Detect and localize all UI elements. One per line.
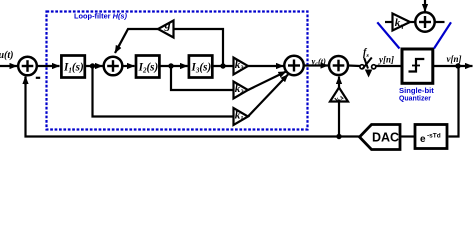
amplifier k2 xyxy=(234,82,249,99)
wire g to S2 top xyxy=(117,29,158,49)
amplifier k4 (points up) xyxy=(330,88,348,102)
wire k3 to S3 xyxy=(248,65,284,67)
svg-text:DAC: DAC xyxy=(372,131,399,145)
node after I2 xyxy=(168,63,173,68)
svg-text:u(t): u(t) xyxy=(0,50,14,61)
wire k2 to S3 diagonal xyxy=(248,72,286,91)
integrator I1 xyxy=(61,56,84,78)
svg-text:fs: fs xyxy=(363,48,369,60)
DAC block xyxy=(360,125,401,150)
svg-text:I1(s): I1(s) xyxy=(63,62,84,75)
node after I1 xyxy=(90,63,95,68)
wire S2 to I2 xyxy=(123,65,135,67)
wire k4 stem to feedback line xyxy=(338,102,340,137)
summing node S2 xyxy=(104,57,123,76)
wire I2 to I3 xyxy=(161,65,188,67)
svg-text:Quantizer: Quantizer xyxy=(399,94,431,103)
wire k4 up into S4 xyxy=(338,77,340,88)
quantizer sign symbol xyxy=(409,59,425,72)
svg-text:v[n]: v[n] xyxy=(447,54,462,64)
delay block e^-sTd xyxy=(415,125,447,149)
wire DAC to feedback line xyxy=(339,135,360,137)
wire quantizer output v[n] xyxy=(433,65,473,67)
wire k1 to S3 diagonal xyxy=(248,75,288,117)
svg-text:k1: k1 xyxy=(235,109,244,122)
callout line right (quantizer zoom) xyxy=(434,22,451,48)
svg-text:y[n]: y[n] xyxy=(378,55,394,65)
quantizer box xyxy=(402,49,433,83)
wire input into summer S1 xyxy=(0,65,17,67)
svg-text:-sTd: -sTd xyxy=(427,133,441,140)
integrator I2 xyxy=(136,56,159,78)
svg-text:Loop-filter H(s): Loop-filter H(s) xyxy=(74,12,128,21)
integrator I3 xyxy=(189,56,212,78)
svg-text:I2(s): I2(s) xyxy=(138,62,159,75)
wire S1 to I1 xyxy=(37,65,60,67)
summing node S1 xyxy=(18,57,37,76)
svg-text:g: g xyxy=(164,17,171,31)
wire I1 to S2 xyxy=(86,65,103,67)
amplifier k3 xyxy=(234,58,249,75)
node feedback junction xyxy=(336,134,341,139)
amplifier g xyxy=(158,21,174,38)
amplifier k1 xyxy=(234,108,249,125)
wire feedback to S1 xyxy=(26,77,340,137)
wire feedback down to delay xyxy=(449,66,459,137)
loop filter dashed box xyxy=(47,12,308,130)
summing node S5 (quantizer model) xyxy=(415,12,434,31)
node after quantizer xyxy=(455,63,460,68)
summing node S4 xyxy=(329,56,348,75)
amplifier kq (quantizer gain) xyxy=(393,14,411,31)
wire sampler to quantizer xyxy=(376,65,401,67)
wire kq to S5 xyxy=(410,21,415,23)
wire k1 tap: node after I1 down and across xyxy=(93,66,234,117)
wire into quantizer-model gain xyxy=(385,21,393,23)
wire S3 to S4 xyxy=(304,64,328,66)
wire delay to DAC xyxy=(400,135,415,137)
minus sign at S1 feedback input xyxy=(36,77,40,79)
svg-text:I3(s): I3(s) xyxy=(191,62,212,75)
svg-text:e: e xyxy=(420,134,426,145)
wire g feedback: node up and across xyxy=(174,29,223,66)
callout line left (quantizer zoom) xyxy=(377,22,399,48)
svg-text:k2: k2 xyxy=(235,83,245,96)
node after I3 xyxy=(220,63,225,68)
svg-text:k3: k3 xyxy=(235,59,245,72)
wire k2 tap: node after I2 down and across xyxy=(171,66,234,90)
wire I3 to k3 xyxy=(214,65,234,67)
wire S4 to sampler xyxy=(348,64,360,67)
sampler switch xyxy=(360,65,364,69)
wire quantization error into S5 from top xyxy=(424,0,426,12)
wire S5 output xyxy=(435,21,445,23)
summing node S3 xyxy=(284,56,303,75)
